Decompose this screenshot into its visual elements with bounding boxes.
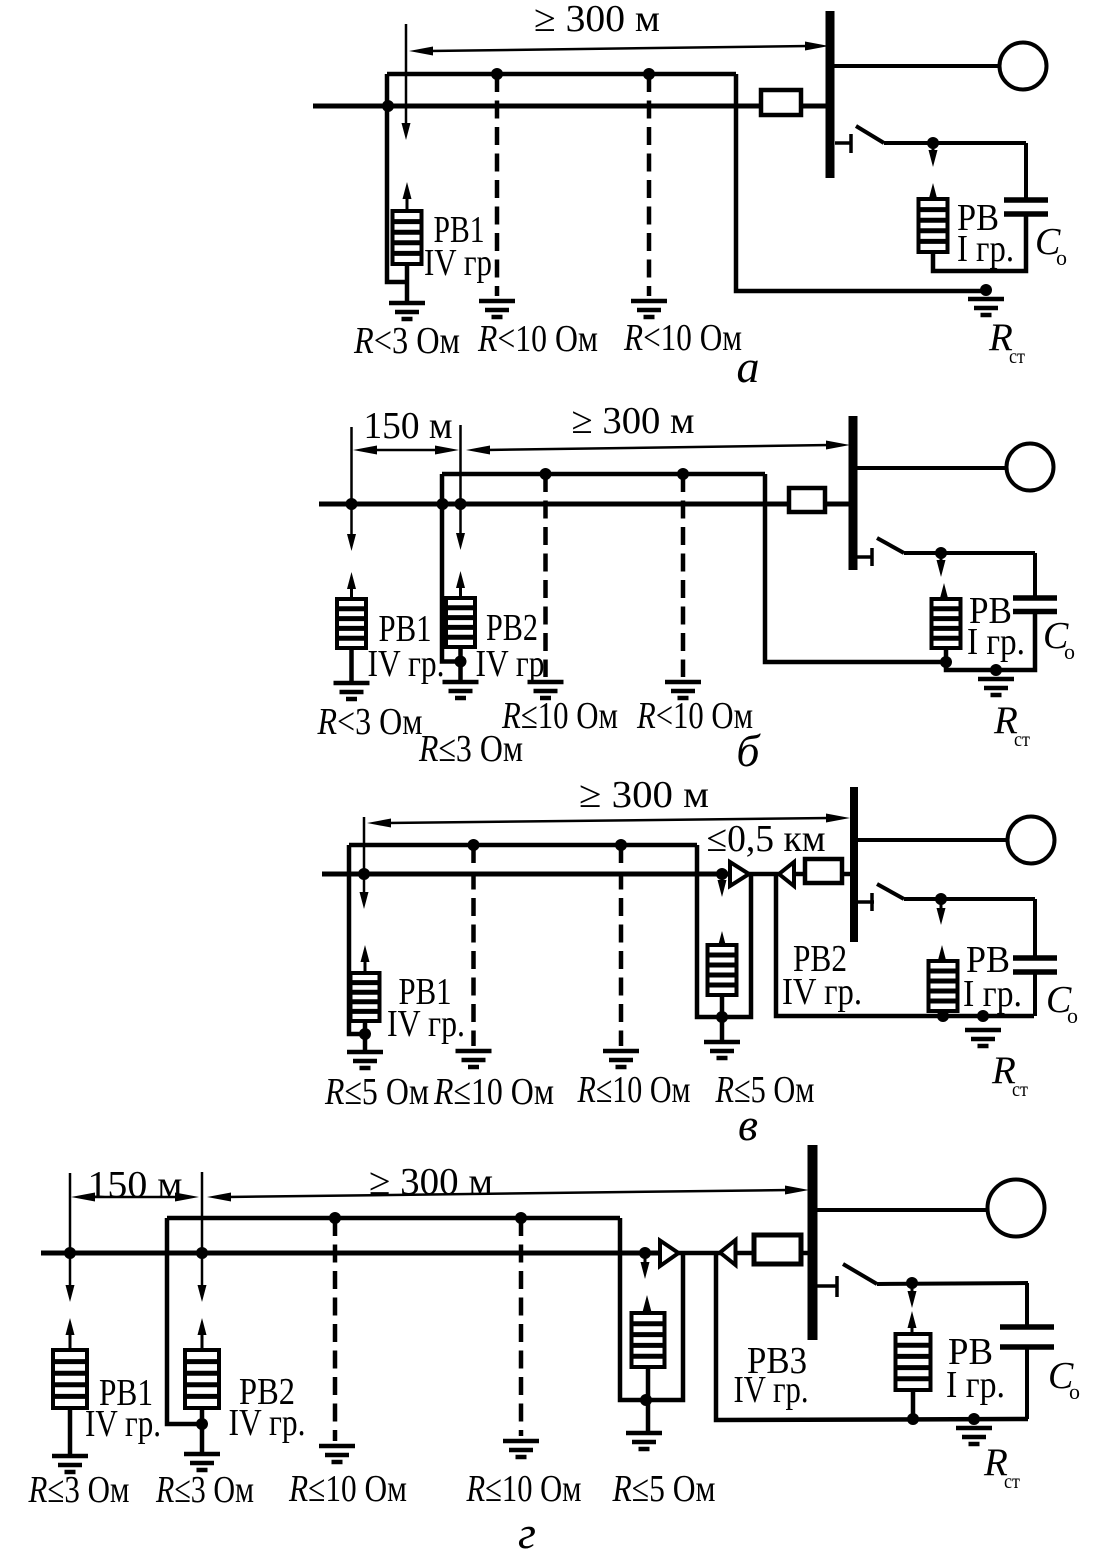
arrester PB tap arrow (v) xyxy=(937,901,946,925)
arrester PB2 top arrow (b) xyxy=(456,571,465,598)
node: arrester tap (b) xyxy=(935,547,947,559)
ground electrode entrance arrester (v) xyxy=(704,1042,740,1058)
wire: busbar to machine (b) xyxy=(857,466,1007,470)
svg-text:R≤10 Ом: R≤10 Ом xyxy=(466,1468,582,1510)
wire: line from box to busbar (a) xyxy=(801,104,827,109)
node: arrester tap (a) xyxy=(927,137,939,149)
diagram a: dimension tick / line-entry arrow xyxy=(402,24,411,140)
wire: right riser from shield to station earth (a) xyxy=(736,74,986,291)
arrester PB1 top arrow (b) xyxy=(347,572,356,599)
grounding conductor dashed 2 (g) xyxy=(519,1218,524,1436)
wire: capacitor bottom riser (g) xyxy=(1025,1347,1029,1419)
machine G (g) xyxy=(988,1180,1045,1237)
line-entry arrow PB1 column (g) xyxy=(66,1173,75,1302)
svg-text:а: а xyxy=(737,341,760,392)
busbar (b) xyxy=(849,416,858,570)
wire: left riser shield to PB1 bottom (v) xyxy=(349,845,365,1034)
wire: entrance arrester to ground (v) xyxy=(720,995,725,1042)
cable head triangle right (g) xyxy=(660,1241,679,1267)
svg-text:б: б xyxy=(736,725,761,776)
wire: cable head to box (g) xyxy=(736,1251,755,1256)
wire: U loop around entrance arrester (g) xyxy=(620,1218,683,1400)
wire: main overhead line (a) xyxy=(313,104,761,109)
arrester PB top arrow (a) xyxy=(929,183,938,200)
diagram b: dimension line 300m xyxy=(466,441,850,455)
svg-text:≥ 300 м: ≥ 300 м xyxy=(369,1161,493,1203)
disconnector contact tick (g) xyxy=(835,1276,839,1297)
wire: busbar to machine (a) xyxy=(834,64,1000,68)
wire: PB bottom (g) xyxy=(911,1390,916,1419)
ground electrode 2 (a) xyxy=(631,301,667,317)
ground electrode station (b) xyxy=(978,679,1014,695)
disconnector blade (g) xyxy=(843,1264,877,1284)
entrance arrester tap arrow (v) xyxy=(718,876,727,897)
ground electrode 2 (g) xyxy=(503,1441,539,1457)
disconnector blade (a) xyxy=(856,126,884,143)
machine G (a) xyxy=(1000,43,1047,90)
arrester PB (g) xyxy=(896,1334,931,1390)
disconnector stub (b) xyxy=(857,555,873,559)
cable entry box (g) xyxy=(754,1235,801,1264)
svg-text:г: г xyxy=(518,1507,536,1558)
machine G (b) xyxy=(1007,444,1054,491)
node: shield junction 1 (g) xyxy=(329,1212,341,1224)
cable head triangle right (v) xyxy=(730,862,749,886)
node: riser line junction (b) xyxy=(437,498,449,510)
node: entrance arrester line junction (g) xyxy=(639,1247,651,1259)
ground electrode entrance arrester (g) xyxy=(626,1433,662,1449)
svg-text:R≤10 Ом: R≤10 Ом xyxy=(433,1071,554,1113)
arrester PB1 top arrow (g) xyxy=(66,1318,75,1350)
arrester PB top arrow (b) xyxy=(940,583,949,600)
node: PB2 riser junction (g) xyxy=(196,1418,208,1430)
svg-text:R≤5 Ом: R≤5 Ом xyxy=(612,1468,716,1510)
svg-text:IV гр.: IV гр. xyxy=(387,1003,465,1045)
wire: capacitor top riser (b) xyxy=(1033,553,1037,598)
wire: PB bottom (v) xyxy=(941,1011,946,1016)
node: entrance arrester bottom junction (g) xyxy=(640,1394,652,1406)
grounding conductor dashed 1 (g) xyxy=(333,1218,338,1441)
disconnector contact tick (v) xyxy=(870,893,874,911)
node: station earth (g) xyxy=(968,1413,980,1425)
cable head triangle left (v) xyxy=(779,862,794,886)
wire: main overhead line (g) xyxy=(41,1251,660,1256)
ground electrode 1 (g) xyxy=(319,1446,355,1462)
wire: switch to capacitor corner (b) xyxy=(904,551,1035,555)
svg-text:ст: ст xyxy=(1014,729,1030,751)
capacitor Co (g) xyxy=(1000,1327,1054,1347)
node: shield junction 1 (b) xyxy=(540,468,552,480)
disconnector stub (a) xyxy=(835,141,852,145)
wire: cable sheath drop and run to station (v) xyxy=(776,874,1034,1016)
arrester PB top arrow (g) xyxy=(908,1311,917,1334)
wire: switch to capacitor corner (a) xyxy=(884,141,1026,145)
arrester PB tap arrow (g) xyxy=(908,1285,917,1308)
diagram a: dimension line 300m xyxy=(409,42,829,56)
node: entrance arrester line junction (v) xyxy=(716,868,728,880)
node: shield junction 2 (g) xyxy=(515,1212,527,1224)
arrester PB2 (g) xyxy=(185,1350,219,1408)
capacitor Co (b) xyxy=(1013,598,1057,612)
wire: PB1 to ground (a) xyxy=(405,264,410,303)
cable entry box (a) xyxy=(761,90,801,115)
arrester PB1 top arrow (a) xyxy=(403,182,412,211)
grounding conductor dashed 1 (a) xyxy=(495,74,500,296)
ground electrode station (v) xyxy=(965,1030,1001,1046)
line-entry arrow PB1 column (v) xyxy=(360,817,369,909)
grounding conductor dashed 2 (v) xyxy=(619,845,624,1046)
wire: PB2 to ground (b) xyxy=(458,647,463,682)
wire: shield wire (b) xyxy=(442,472,765,477)
wire: PB1 to ground (g) xyxy=(68,1408,73,1456)
ground electrode station (g) xyxy=(956,1428,992,1444)
diagram b: dimension line 150m xyxy=(353,446,459,455)
grounding conductor dashed 2 (a) xyxy=(647,74,652,296)
cable head triangle left (g) xyxy=(720,1240,736,1265)
wire: line between cable heads (v) xyxy=(748,872,780,877)
svg-text:в: в xyxy=(738,1099,758,1150)
wire: right riser shield to station (b) xyxy=(765,474,947,662)
node: shield junction 1 (a) xyxy=(491,68,503,80)
svg-text:R≤10 Ом: R≤10 Ом xyxy=(577,1069,691,1111)
arrester PB (b) xyxy=(932,599,961,648)
wire: PB bottom to capacitor bottom (a) xyxy=(933,214,1026,271)
ground electrode PB2 (b) xyxy=(443,682,479,698)
node: shield junction 1 (v) xyxy=(468,839,480,851)
ground electrode PB1 (v) xyxy=(347,1052,383,1068)
node: PB riser junction (b) xyxy=(940,656,952,668)
wire: shield wire (v) xyxy=(349,843,697,848)
grounding conductor dashed 1 (v) xyxy=(471,845,476,1046)
node: shield junction 2 (b) xyxy=(677,468,689,480)
disconnector contact tick (a) xyxy=(849,134,853,153)
wire: switch to capacitor corner (g) xyxy=(877,1283,1028,1284)
node: line/riser junction (a) xyxy=(382,100,394,112)
ground electrode 1 (v) xyxy=(456,1051,492,1067)
svg-text:IV гр.: IV гр. xyxy=(229,1402,306,1444)
wire: left riser shield to PB2 bottom (g) xyxy=(167,1218,202,1424)
line-entry arrow PB2 column (g) xyxy=(198,1172,207,1302)
node: entrance arrester bottom junction (v) xyxy=(716,1011,728,1023)
wire: switch to capacitor corner (v) xyxy=(904,897,1035,901)
node: PB1 riser junction (v) xyxy=(359,1028,371,1040)
capacitor Co (v) xyxy=(1013,958,1057,972)
wire: PB1 to ground (b) xyxy=(349,648,354,683)
svg-text:≤0,5 км: ≤0,5 км xyxy=(707,818,826,860)
svg-text:о: о xyxy=(1064,639,1075,664)
entrance arrester top arrow (v) xyxy=(718,931,727,948)
svg-text:R≤10 Ом: R≤10 Ом xyxy=(501,695,618,737)
svg-text:о: о xyxy=(1056,245,1067,270)
svg-text:R<3 Ом: R<3 Ом xyxy=(353,320,460,362)
grounding conductor dashed 1 (b) xyxy=(543,474,548,677)
svg-text:R<10 Ом: R<10 Ом xyxy=(623,317,742,359)
ground electrode 2 (v) xyxy=(603,1051,639,1067)
node: PB2 riser junction (b) xyxy=(455,656,467,668)
svg-text:о: о xyxy=(1069,1379,1080,1404)
arrester PB1 (g) xyxy=(53,1350,87,1408)
wire: entrance arrester to ground (g) xyxy=(646,1367,651,1433)
disconnector stub (v) xyxy=(858,900,874,904)
node: PB1 line junction (b) xyxy=(346,498,358,510)
node: station earth (b) xyxy=(990,664,1002,676)
svg-text:IV гр: IV гр xyxy=(476,643,545,685)
wire: line between cable heads (g) xyxy=(677,1251,721,1256)
ground electrode 1 (a) xyxy=(479,301,515,317)
arrester PB tap arrow (b) xyxy=(937,555,946,577)
arrester PB1 (b) xyxy=(337,599,366,648)
svg-text:IV гр.: IV гр. xyxy=(368,643,445,685)
ground electrode station (a) xyxy=(968,299,1004,315)
svg-text:I гр.: I гр. xyxy=(963,973,1022,1015)
entrance arrester top arrow (g) xyxy=(643,1295,652,1313)
ground electrode 2 (b) xyxy=(665,682,701,698)
diagram v: dimension line 300m xyxy=(367,814,850,828)
wire: busbar to machine (v) xyxy=(858,838,1008,842)
ground electrode 1 (b) xyxy=(528,682,564,698)
arrester PB tap arrow (a) xyxy=(929,145,938,167)
svg-text:150 м: 150 м xyxy=(88,1164,183,1206)
diagram g: dimension line 150m xyxy=(71,1193,199,1202)
ground electrode PB1 (g) xyxy=(52,1456,88,1472)
entrance arrester (v) xyxy=(708,945,737,995)
wire: cable sheath drop and run to station (g) xyxy=(716,1253,1028,1420)
svg-text:ст: ст xyxy=(1009,346,1025,368)
ground electrode PB2 (g) xyxy=(184,1454,220,1470)
svg-text:I гр.: I гр. xyxy=(967,621,1025,663)
node: arrester tap (v) xyxy=(935,893,947,905)
node: PB1 line junction (g) xyxy=(64,1247,76,1259)
wire: shield wire (a) xyxy=(387,72,736,77)
entrance arrester tap arrow (g) xyxy=(641,1255,650,1279)
line-entry arrow PB1 column (b) xyxy=(347,427,356,551)
svg-text:I гр.: I гр. xyxy=(957,228,1014,270)
arrester PB (v) xyxy=(929,961,958,1011)
wire: capacitor bottom riser (v) xyxy=(1033,972,1037,1016)
disconnector blade (v) xyxy=(877,884,904,899)
svg-text:≥ 300 м: ≥ 300 м xyxy=(572,400,695,442)
node: shield junction 2 (v) xyxy=(615,839,627,851)
svg-text:R≤5 Ом: R≤5 Ом xyxy=(715,1069,815,1111)
machine G (v) xyxy=(1008,817,1055,864)
svg-text:R<3 Ом: R<3 Ом xyxy=(317,701,423,743)
wire: PB1 to ground (v) xyxy=(363,1021,368,1052)
svg-text:R≤5 Ом: R≤5 Ом xyxy=(324,1071,429,1113)
ground electrode PB1 (b) xyxy=(334,683,370,699)
wire: left riser from shield to PB1 ground (a) xyxy=(387,74,407,282)
busbar (v) xyxy=(850,787,858,942)
svg-text:≥ 300 м: ≥ 300 м xyxy=(579,774,709,816)
wire: capacitor top riser (g) xyxy=(1025,1283,1029,1327)
svg-text:IV гр.: IV гр. xyxy=(734,1369,809,1411)
wire: PB2 to ground (g) xyxy=(200,1408,205,1454)
wire: capacitor top riser (a) xyxy=(1024,143,1028,200)
wire: capacitor top riser (v) xyxy=(1033,899,1037,958)
entrance arrester (g) xyxy=(632,1313,665,1367)
svg-text:≥ 300 м: ≥ 300 м xyxy=(534,0,660,40)
wire: main overhead line (v) xyxy=(322,872,730,877)
arrester PB top arrow (v) xyxy=(938,945,947,962)
svg-text:IV гр: IV гр xyxy=(424,242,492,284)
node: PB1 line junction (v) xyxy=(358,868,370,880)
disconnector blade (b) xyxy=(877,538,904,553)
wire: box to busbar (v) xyxy=(842,872,850,877)
wire: cable head to box (v) xyxy=(794,872,805,877)
capacitor Co (a) xyxy=(1004,200,1048,214)
wire: PB bottom to capacitor bottom (b) xyxy=(946,612,1035,671)
arrester PB1 (v) xyxy=(351,973,380,1021)
wire: main overhead line (b) xyxy=(319,502,789,507)
svg-text:ст: ст xyxy=(1012,1079,1028,1101)
svg-text:IV гр.: IV гр. xyxy=(85,1403,161,1445)
diagram g: dimension line 300m xyxy=(207,1186,809,1202)
svg-text:R<10 Ом: R<10 Ом xyxy=(477,318,598,360)
cable entry box (b) xyxy=(789,488,825,512)
busbar (g) xyxy=(808,1145,818,1340)
disconnector contact tick (b) xyxy=(870,548,874,566)
wire: U loop around entrance arrester (v) xyxy=(697,845,751,1017)
arrester PB2 (b) xyxy=(446,598,475,647)
arrester PB1 top arrow (v) xyxy=(361,945,370,973)
node: station earth (v) xyxy=(977,1010,989,1022)
svg-text:IV гр.: IV гр. xyxy=(782,971,862,1013)
svg-text:R≤3 Ом: R≤3 Ом xyxy=(155,1469,254,1511)
cable entry box (v) xyxy=(805,859,842,883)
node: shield junction 2 (a) xyxy=(643,68,655,80)
wire: line box to busbar (b) xyxy=(825,502,849,507)
svg-text:ст: ст xyxy=(1004,1471,1020,1493)
wire: left riser shield to PB2 bottom (b) xyxy=(442,474,461,662)
node: PB2 line junction (g) xyxy=(196,1247,208,1259)
arrester PB1 (a) xyxy=(393,211,422,264)
svg-text:I гр.: I гр. xyxy=(946,1364,1005,1406)
svg-text:R≤10 Ом: R≤10 Ом xyxy=(288,1468,407,1510)
grounding conductor dashed 2 (b) xyxy=(681,474,686,677)
svg-text:о: о xyxy=(1067,1003,1078,1028)
disconnector stub (g) xyxy=(817,1284,838,1288)
ground electrode PB1 (a) xyxy=(389,303,425,319)
line-entry arrow PB2 column (b) xyxy=(456,425,465,550)
node: station earth (a) xyxy=(980,284,992,296)
wire: box to busbar (g) xyxy=(801,1251,808,1256)
busbar (a) xyxy=(826,11,835,178)
node: PB bottom junction (v) xyxy=(937,1010,949,1022)
arrester PB2 top arrow (g) xyxy=(198,1318,207,1350)
svg-text:150 м: 150 м xyxy=(364,405,453,447)
node: PB2 line junction (b) xyxy=(455,498,467,510)
svg-text:R≤3 Ом: R≤3 Ом xyxy=(28,1469,130,1511)
node: arrester tap (g) xyxy=(906,1277,918,1289)
arrester PB (a) xyxy=(919,199,948,252)
wire: shield wire (g) xyxy=(167,1216,620,1221)
wire: busbar to machine (g) xyxy=(817,1208,988,1212)
node: PB bottom junction (g) xyxy=(907,1413,919,1425)
